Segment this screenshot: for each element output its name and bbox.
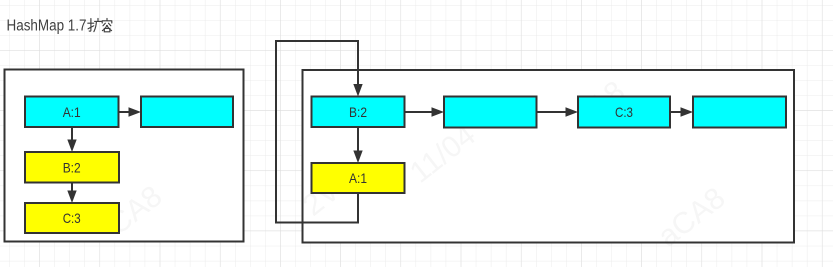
glyph 扩 [88, 19, 94, 32]
title: HashMap 1.7扩容 [7, 18, 112, 35]
arrow B:2 -> A:1 (new table) [353, 127, 362, 163]
svg-text:HashMap 1.7: HashMap 1.7 [7, 18, 87, 35]
node A:1 (old table, cyan) [25, 97, 119, 128]
arrow bucket box 2 -> C:3 [537, 107, 578, 116]
new table container [303, 70, 795, 243]
node C:3 (old table, yellow) [25, 203, 119, 233]
next bucket box (old table) [141, 97, 233, 128]
arrow B:2 -> bucket box 2 [405, 107, 444, 116]
svg-text:C:3: C:3 [615, 104, 633, 120]
glyph 容 [102, 18, 112, 23]
svg-text:C:3: C:3 [63, 210, 81, 226]
node B:2 (new table, cyan) [312, 97, 405, 128]
bucket box 2 (new table) [444, 97, 537, 128]
node C:3 (new table, cyan) [578, 97, 670, 128]
arrow B:2 -> C:3 [67, 183, 76, 204]
node B:2 (old table, yellow) [25, 152, 119, 183]
arrow C:3 -> bucket box 4 [670, 107, 693, 116]
old table container [5, 70, 244, 242]
loop wire A:1 -> B:2 (circular reference) [276, 41, 363, 223]
watermark [102, 75, 731, 254]
svg-text:B:2: B:2 [349, 104, 367, 120]
svg-text:B:2: B:2 [63, 160, 81, 176]
node A:1 (new table, yellow) [312, 163, 405, 193]
svg-text:A:1: A:1 [63, 104, 81, 120]
arrow A:1 -> next box [119, 107, 141, 116]
svg-text:A:1: A:1 [349, 170, 367, 186]
arrow A:1 -> B:2 [67, 127, 76, 152]
bucket box 4 (new table) [693, 97, 786, 128]
